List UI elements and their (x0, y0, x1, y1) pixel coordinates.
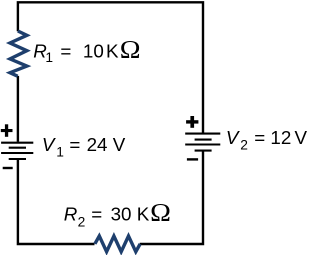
svg-text:K: K (106, 41, 119, 62)
svg-text:24 V: 24 V (87, 134, 126, 155)
svg-text:1: 1 (45, 50, 53, 65)
svg-text:Ω: Ω (120, 35, 141, 63)
svg-text:V: V (295, 127, 308, 148)
svg-text:=: = (69, 134, 80, 155)
svg-text:2: 2 (78, 214, 86, 229)
svg-text:V: V (226, 127, 240, 148)
svg-text:=: = (91, 204, 102, 225)
svg-text:V: V (42, 134, 56, 155)
svg-text:10: 10 (83, 41, 104, 62)
svg-text:Ω: Ω (150, 198, 171, 226)
svg-text:2: 2 (240, 137, 248, 152)
svg-text:=: = (254, 127, 265, 148)
svg-text:R: R (64, 204, 78, 225)
svg-text:30 K: 30 K (111, 204, 150, 225)
svg-text:=: = (60, 41, 71, 62)
svg-text:1: 1 (56, 145, 64, 160)
svg-text:12: 12 (270, 127, 291, 148)
